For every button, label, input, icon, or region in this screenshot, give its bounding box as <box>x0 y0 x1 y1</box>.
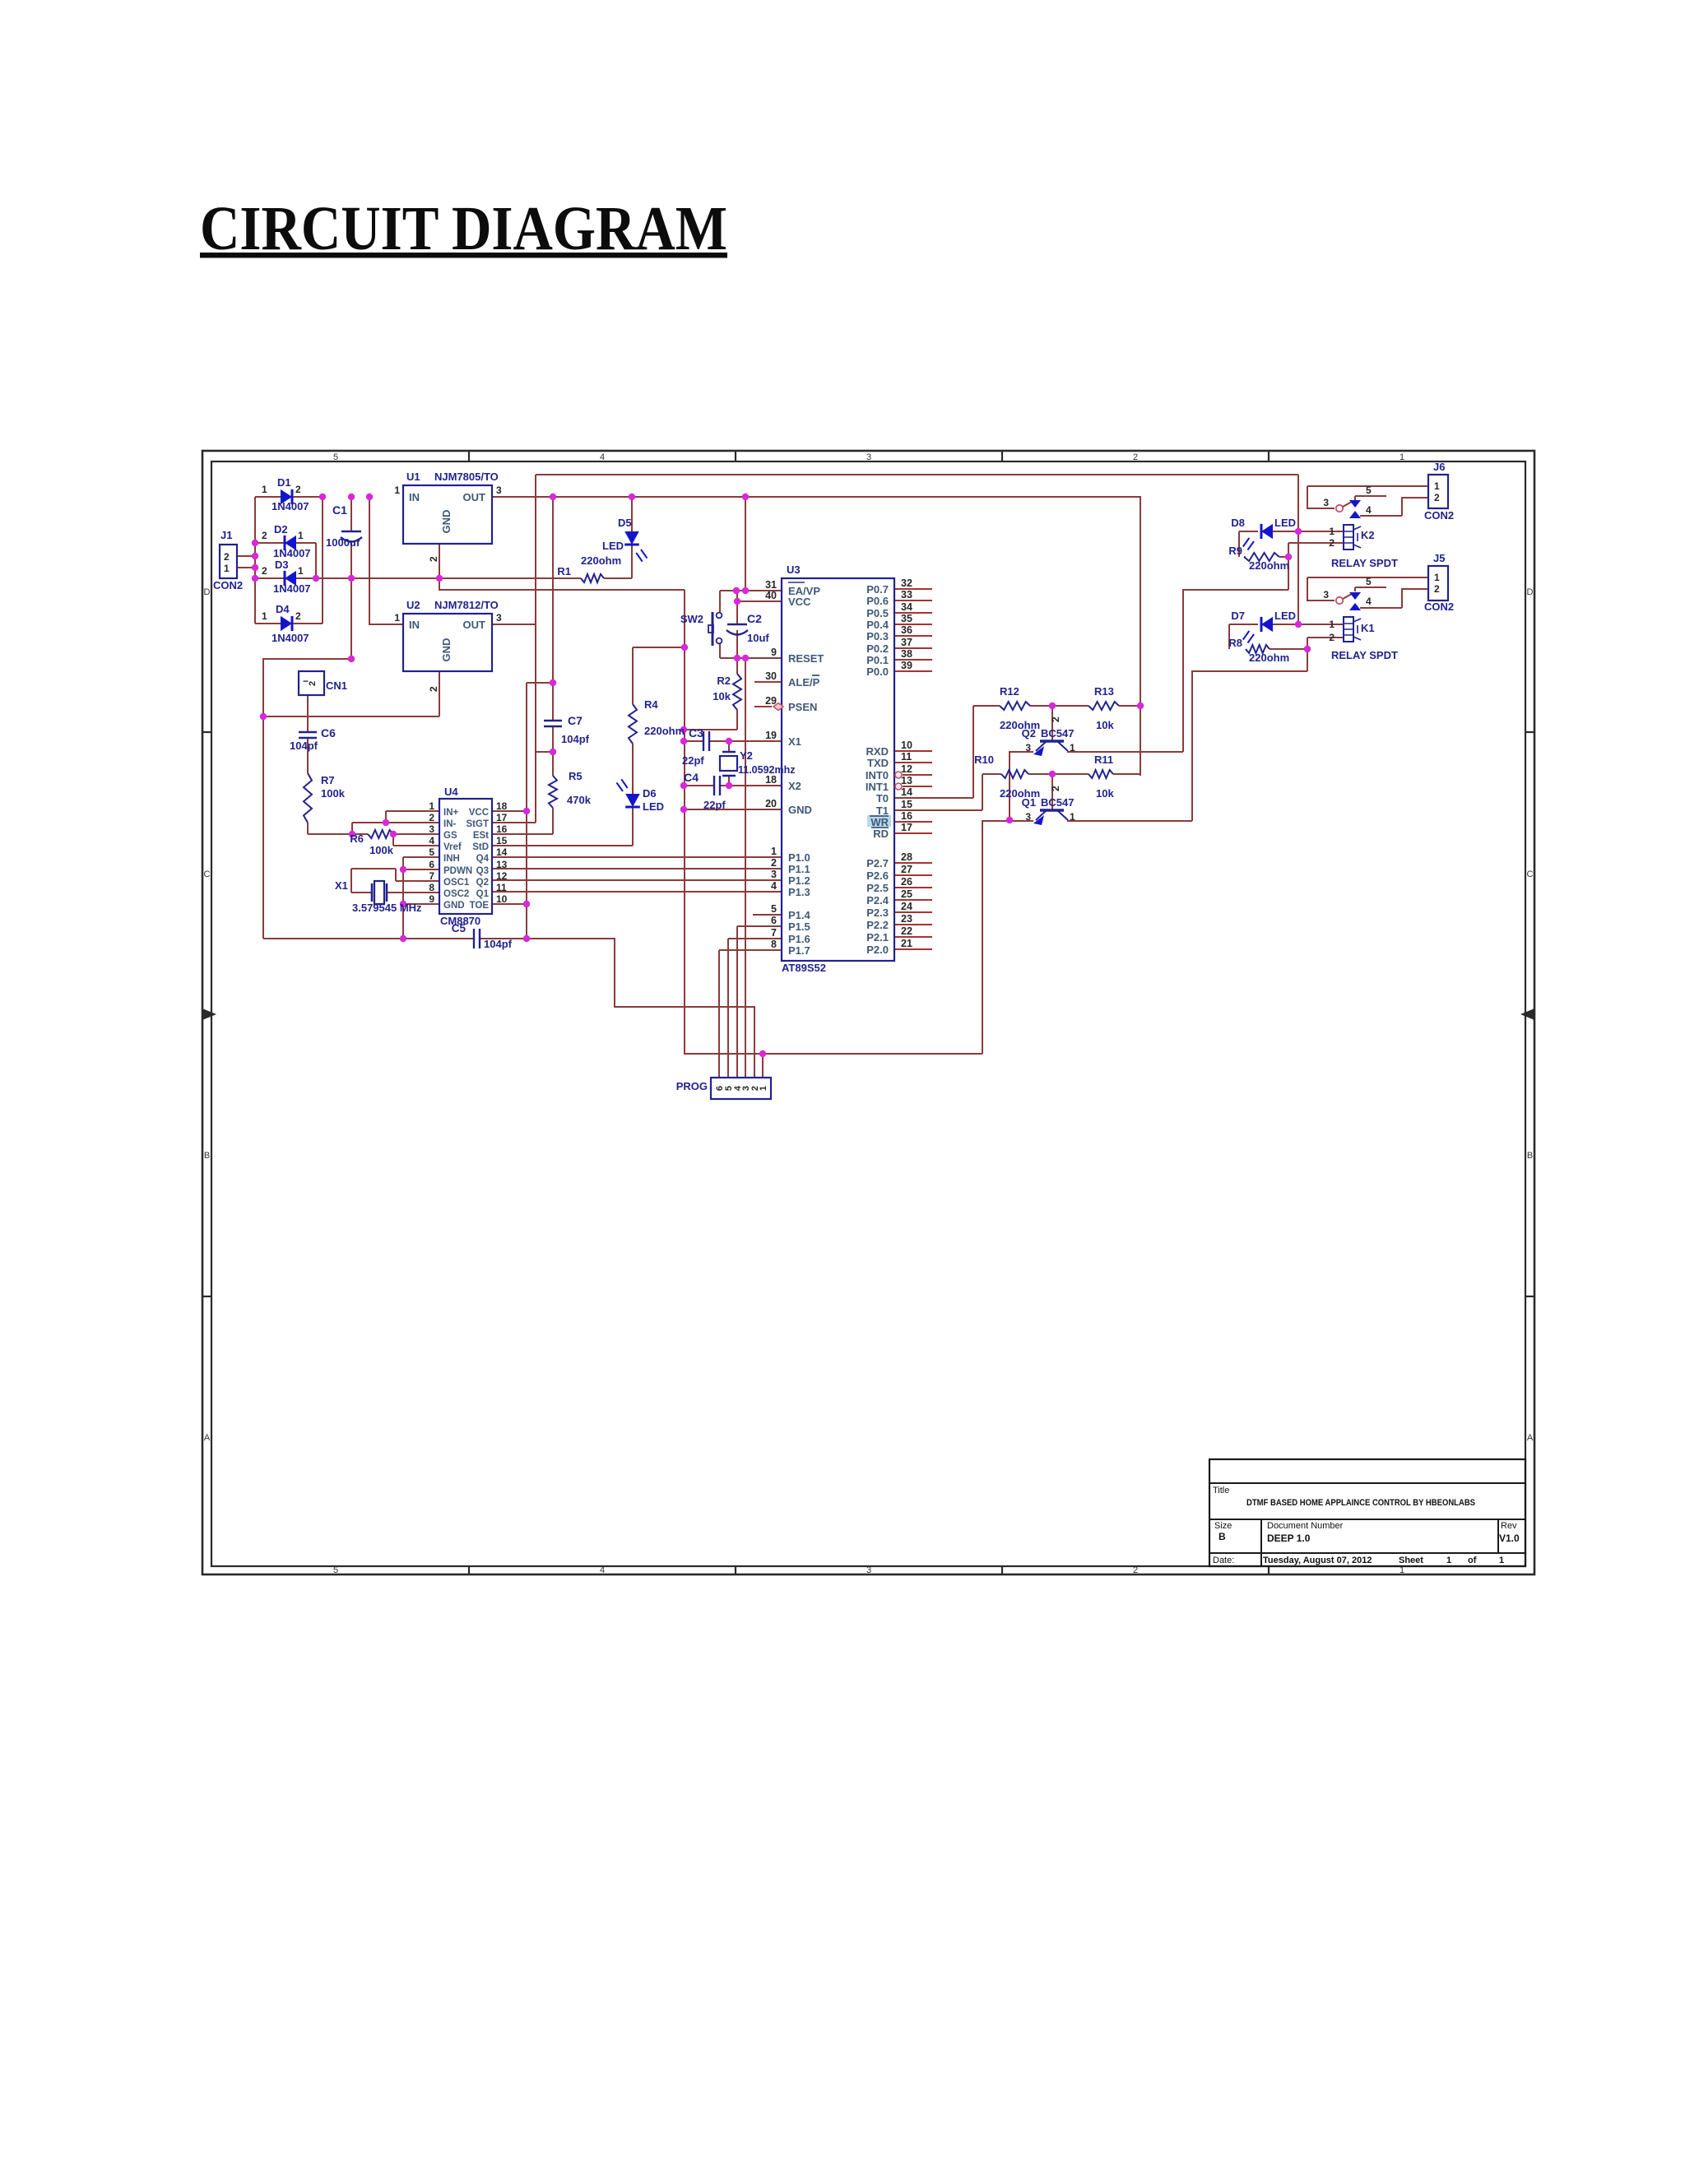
svg-text:RELAY SPDT: RELAY SPDT <box>1331 649 1398 661</box>
svg-text:R9: R9 <box>1228 545 1242 557</box>
svg-text:2: 2 <box>224 551 230 563</box>
svg-text:Rev: Rev <box>1501 1521 1517 1531</box>
svg-text:11: 11 <box>901 751 912 763</box>
svg-text:NJM7812/TO: NJM7812/TO <box>434 599 499 611</box>
svg-text:5: 5 <box>771 903 777 915</box>
svg-text:P0.7: P0.7 <box>866 583 889 596</box>
svg-text:IN+: IN+ <box>443 808 459 818</box>
svg-text:22pf: 22pf <box>703 799 726 811</box>
svg-text:1: 1 <box>224 563 230 574</box>
svg-text:P2.1: P2.1 <box>866 931 889 944</box>
svg-text:IN: IN <box>409 491 420 503</box>
svg-text:20: 20 <box>765 798 777 809</box>
svg-text:P0.1: P0.1 <box>866 654 889 666</box>
svg-text:27: 27 <box>901 864 912 875</box>
svg-text:D8: D8 <box>1231 517 1245 529</box>
svg-text:C3: C3 <box>689 726 703 740</box>
svg-text:Q4: Q4 <box>476 854 490 864</box>
svg-text:10uf: 10uf <box>747 632 769 644</box>
svg-text:D4: D4 <box>276 603 290 615</box>
svg-text:PROG: PROG <box>676 1080 708 1092</box>
svg-text:D3: D3 <box>275 559 289 571</box>
svg-text:38: 38 <box>901 648 912 660</box>
svg-text:2: 2 <box>428 686 439 692</box>
svg-text:26: 26 <box>901 876 912 888</box>
svg-text:TXD: TXD <box>867 757 889 769</box>
svg-text:WR: WR <box>870 816 889 828</box>
svg-text:4: 4 <box>1366 596 1372 607</box>
svg-text:P1.1: P1.1 <box>788 863 810 875</box>
svg-text:U2: U2 <box>406 599 420 611</box>
svg-text:104pf: 104pf <box>290 740 318 752</box>
svg-text:2: 2 <box>1434 492 1440 503</box>
svg-text:StGT: StGT <box>467 819 489 829</box>
svg-text:INT0: INT0 <box>866 769 889 781</box>
svg-text:2: 2 <box>1050 716 1061 722</box>
svg-text:10: 10 <box>901 740 912 751</box>
svg-text:C7: C7 <box>568 714 583 727</box>
svg-text:VCC: VCC <box>469 808 489 818</box>
svg-text:P2.5: P2.5 <box>866 882 889 894</box>
svg-text:P0.5: P0.5 <box>866 607 889 619</box>
svg-text:22pf: 22pf <box>682 754 704 767</box>
svg-text:GND: GND <box>440 510 453 534</box>
svg-text:1: 1 <box>1446 1556 1451 1565</box>
svg-text:1: 1 <box>394 612 400 624</box>
svg-text:of: of <box>1468 1556 1477 1565</box>
svg-text:T1: T1 <box>876 805 889 817</box>
svg-text:DEEP 1.0: DEEP 1.0 <box>1267 1533 1311 1544</box>
svg-text:28: 28 <box>901 851 912 863</box>
svg-text:Size: Size <box>1214 1521 1232 1531</box>
svg-text:C: C <box>204 869 211 879</box>
svg-text:7: 7 <box>771 927 777 939</box>
svg-text:LED: LED <box>602 540 624 552</box>
svg-text:R4: R4 <box>644 698 658 711</box>
svg-text:30: 30 <box>765 670 777 682</box>
svg-text:SW2: SW2 <box>680 613 703 625</box>
svg-text:40: 40 <box>765 590 777 601</box>
svg-text:RXD: RXD <box>866 745 889 758</box>
svg-text:D5: D5 <box>618 517 632 529</box>
svg-text:100k: 100k <box>321 787 346 800</box>
svg-text:C1: C1 <box>332 503 347 517</box>
svg-text:3: 3 <box>1025 742 1031 754</box>
svg-text:GS: GS <box>443 831 457 841</box>
svg-text:24: 24 <box>901 901 912 912</box>
svg-text:R7: R7 <box>321 774 335 786</box>
svg-text:D6: D6 <box>643 787 657 800</box>
svg-text:INH: INH <box>443 854 460 864</box>
svg-text:6: 6 <box>429 859 434 870</box>
svg-text:P2.7: P2.7 <box>866 857 889 869</box>
svg-text:17: 17 <box>496 812 508 823</box>
svg-text:Q2: Q2 <box>1022 727 1036 740</box>
svg-text:1: 1 <box>1070 811 1075 823</box>
svg-text:1N4007: 1N4007 <box>272 500 309 512</box>
svg-text:15: 15 <box>496 835 508 846</box>
svg-text:10k: 10k <box>1096 787 1114 800</box>
svg-text:C4: C4 <box>684 771 699 784</box>
svg-text:J5: J5 <box>1433 552 1445 564</box>
svg-text:DTMF BASED HOME APPLAINCE CONT: DTMF BASED HOME APPLAINCE CONTROL BY HBE… <box>1246 1498 1475 1508</box>
svg-text:P1.5: P1.5 <box>788 920 810 933</box>
svg-text:Vref: Vref <box>443 842 462 852</box>
svg-text:1: 1 <box>262 484 267 495</box>
svg-text:R10: R10 <box>974 754 994 766</box>
svg-text:Date:: Date: <box>1213 1556 1234 1565</box>
svg-text:P2.6: P2.6 <box>866 869 889 882</box>
svg-text:X1: X1 <box>788 735 801 748</box>
svg-text:Title: Title <box>1213 1486 1229 1495</box>
svg-text:1: 1 <box>771 846 777 857</box>
svg-text:16: 16 <box>901 810 912 822</box>
svg-text:1: 1 <box>1329 619 1335 630</box>
svg-text:RELAY SPDT: RELAY SPDT <box>1331 557 1398 569</box>
svg-text:14: 14 <box>901 786 912 798</box>
svg-text:B: B <box>1527 1151 1533 1161</box>
svg-text:B: B <box>204 1151 210 1161</box>
svg-text:NJM7805/TO: NJM7805/TO <box>434 471 499 483</box>
svg-text:5: 5 <box>1366 485 1372 496</box>
svg-text:Q3: Q3 <box>476 866 489 876</box>
svg-text:3: 3 <box>1025 811 1031 823</box>
svg-text:IN-: IN- <box>443 819 457 829</box>
svg-text:P2.4: P2.4 <box>866 894 889 907</box>
svg-text:1: 1 <box>429 800 434 812</box>
svg-text:P1.2: P1.2 <box>788 874 810 887</box>
svg-text:2: 2 <box>771 857 777 869</box>
svg-text:37: 37 <box>901 637 912 648</box>
svg-text:15: 15 <box>901 799 912 810</box>
svg-text:4: 4 <box>1366 504 1372 516</box>
svg-text:18: 18 <box>496 800 508 812</box>
svg-text:D2: D2 <box>274 523 288 536</box>
svg-text:P2.0: P2.0 <box>866 944 889 956</box>
svg-text:U1: U1 <box>406 471 420 483</box>
svg-text:C6: C6 <box>321 726 336 740</box>
svg-text:1: 1 <box>1434 572 1440 583</box>
svg-text:RESET: RESET <box>788 652 824 665</box>
svg-text:Tuesday, August 07, 2012: Tuesday, August 07, 2012 <box>1263 1556 1372 1565</box>
svg-text:33: 33 <box>901 589 912 600</box>
svg-text:4: 4 <box>771 880 777 892</box>
svg-text:P0.2: P0.2 <box>866 642 889 655</box>
svg-text:ALE/P: ALE/P <box>788 676 820 689</box>
svg-text:1: 1 <box>262 610 267 622</box>
svg-text:1: 1 <box>298 530 304 541</box>
svg-text:220ohm: 220ohm <box>581 554 621 567</box>
svg-text:P1.0: P1.0 <box>788 851 810 864</box>
svg-text:19: 19 <box>765 730 777 741</box>
svg-text:1N4007: 1N4007 <box>273 582 311 595</box>
svg-text:14: 14 <box>496 846 508 858</box>
svg-text:PSEN: PSEN <box>788 701 817 713</box>
svg-text:220ohm: 220ohm <box>1249 559 1289 572</box>
svg-text:GND: GND <box>440 638 453 662</box>
svg-text:P1.3: P1.3 <box>788 886 810 898</box>
svg-text:220ohm: 220ohm <box>644 725 685 737</box>
svg-text:2: 2 <box>1133 1565 1138 1575</box>
svg-text:R2: R2 <box>717 675 731 687</box>
svg-text:C5: C5 <box>452 922 467 934</box>
svg-text:39: 39 <box>901 660 912 671</box>
svg-text:R6: R6 <box>350 832 364 845</box>
svg-text:1000uf: 1000uf <box>326 536 360 549</box>
svg-text:35: 35 <box>901 613 912 624</box>
svg-text:5: 5 <box>1366 576 1372 587</box>
svg-text:LED: LED <box>1274 517 1296 529</box>
svg-text:100k: 100k <box>369 844 394 856</box>
svg-text:9: 9 <box>429 893 434 905</box>
svg-text:16: 16 <box>496 823 508 835</box>
svg-text:3: 3 <box>1323 589 1329 600</box>
svg-text:C2: C2 <box>747 612 762 625</box>
svg-text:D7: D7 <box>1231 610 1245 622</box>
svg-text:Document Number: Document Number <box>1267 1521 1344 1531</box>
svg-text:BC547: BC547 <box>1041 727 1074 740</box>
svg-text:31: 31 <box>765 579 777 591</box>
svg-text:22: 22 <box>901 925 912 937</box>
svg-text:AT89S52: AT89S52 <box>782 962 826 974</box>
svg-text:R13: R13 <box>1094 685 1114 698</box>
svg-text:4: 4 <box>600 452 605 462</box>
svg-text:OSC1: OSC1 <box>443 878 470 888</box>
svg-text:3: 3 <box>866 1565 871 1575</box>
svg-text:3.579545 MHz: 3.579545 MHz <box>352 902 422 914</box>
svg-text:OUT: OUT <box>463 619 486 631</box>
svg-text:2: 2 <box>262 530 267 541</box>
svg-text:CON2: CON2 <box>213 579 243 591</box>
svg-text:10k: 10k <box>713 690 731 702</box>
svg-text:U4: U4 <box>444 786 458 798</box>
svg-text:P2.3: P2.3 <box>866 907 889 919</box>
svg-text:R11: R11 <box>1094 754 1113 766</box>
svg-text:25: 25 <box>901 888 912 900</box>
svg-text:Sheet: Sheet <box>1399 1556 1423 1565</box>
svg-text:R5: R5 <box>569 770 583 782</box>
svg-text:X1: X1 <box>335 879 348 892</box>
svg-text:2: 2 <box>295 610 301 622</box>
svg-text:1: 1 <box>1434 480 1440 492</box>
svg-text:3: 3 <box>1323 497 1329 508</box>
svg-text:220ohm: 220ohm <box>1249 651 1289 664</box>
svg-text:4: 4 <box>600 1565 605 1575</box>
svg-text:9: 9 <box>771 647 777 658</box>
svg-text:3: 3 <box>496 485 502 496</box>
svg-text:2: 2 <box>308 681 318 686</box>
svg-text:13: 13 <box>901 775 912 786</box>
svg-text:36: 36 <box>901 624 912 636</box>
svg-text:13: 13 <box>496 859 508 870</box>
svg-text:3: 3 <box>496 612 502 624</box>
svg-text:J1: J1 <box>220 529 232 541</box>
svg-text:K2: K2 <box>1361 529 1375 541</box>
svg-text:V1.0: V1.0 <box>1499 1533 1520 1544</box>
svg-text:R12: R12 <box>1000 685 1019 698</box>
svg-text:104pf: 104pf <box>561 733 590 745</box>
svg-text:2: 2 <box>1050 786 1061 791</box>
svg-text:A: A <box>204 1433 211 1443</box>
svg-text:R1: R1 <box>557 565 571 577</box>
svg-text:OSC2: OSC2 <box>443 889 469 899</box>
svg-text:P0.0: P0.0 <box>866 665 889 678</box>
svg-text:P0.3: P0.3 <box>866 630 889 642</box>
svg-text:2: 2 <box>1133 452 1138 462</box>
svg-text:IN: IN <box>409 619 420 631</box>
svg-text:C: C <box>1527 869 1534 879</box>
svg-text:5: 5 <box>429 846 434 858</box>
svg-text:CN1: CN1 <box>326 679 347 692</box>
svg-text:1: 1 <box>1400 452 1404 462</box>
svg-text:1: 1 <box>1070 742 1075 754</box>
svg-text:CON2: CON2 <box>1424 509 1454 522</box>
svg-text:1: 1 <box>394 485 400 496</box>
svg-text:GND: GND <box>443 901 465 911</box>
svg-text:CON2: CON2 <box>1424 600 1454 613</box>
svg-text:D: D <box>1527 587 1534 597</box>
svg-text:1: 1 <box>1329 526 1335 537</box>
svg-text:P0.4: P0.4 <box>866 619 889 631</box>
svg-text:X2: X2 <box>788 780 801 792</box>
svg-text:Y2: Y2 <box>740 749 753 762</box>
svg-text:23: 23 <box>901 913 912 925</box>
svg-text:INT1: INT1 <box>866 781 889 793</box>
svg-text:18: 18 <box>765 774 777 786</box>
svg-text:Q2: Q2 <box>476 878 489 888</box>
svg-text:R8: R8 <box>1228 637 1242 649</box>
svg-text:5: 5 <box>333 1565 338 1575</box>
svg-text:1N4007: 1N4007 <box>273 547 311 559</box>
svg-text:5: 5 <box>333 452 338 462</box>
svg-text:6: 6 <box>771 915 777 926</box>
svg-text:K1: K1 <box>1361 622 1375 634</box>
svg-text:U3: U3 <box>787 563 801 576</box>
svg-text:LED: LED <box>1274 610 1296 622</box>
svg-text:Q1: Q1 <box>476 889 490 899</box>
svg-text:P0.6: P0.6 <box>866 595 889 607</box>
svg-text:470k: 470k <box>567 794 592 806</box>
svg-text:P1.7: P1.7 <box>788 944 810 957</box>
svg-text:P2.2: P2.2 <box>866 919 889 931</box>
svg-text:GND: GND <box>788 804 812 816</box>
svg-text:4: 4 <box>429 835 434 846</box>
svg-text:2: 2 <box>428 556 439 562</box>
svg-text:12: 12 <box>496 870 508 882</box>
svg-text:104pf: 104pf <box>484 938 513 950</box>
svg-text:12: 12 <box>901 763 912 775</box>
svg-text:7: 7 <box>429 870 434 882</box>
svg-text:A: A <box>1527 1433 1534 1443</box>
svg-text:3: 3 <box>771 869 777 880</box>
svg-text:10k: 10k <box>1096 719 1114 731</box>
svg-text:2: 2 <box>1329 632 1335 643</box>
svg-text:21: 21 <box>901 938 912 949</box>
svg-text:1: 1 <box>759 1086 768 1091</box>
svg-text:3: 3 <box>429 823 434 835</box>
svg-text:LED: LED <box>643 800 664 813</box>
svg-text:8: 8 <box>771 939 777 950</box>
svg-text:10: 10 <box>496 893 508 905</box>
svg-text:32: 32 <box>901 577 912 589</box>
svg-text:J6: J6 <box>1433 461 1445 473</box>
svg-text:RD: RD <box>873 828 889 840</box>
svg-text:17: 17 <box>901 822 912 833</box>
svg-text:Q1: Q1 <box>1022 796 1036 809</box>
svg-text:P1.6: P1.6 <box>788 933 810 945</box>
svg-text:2: 2 <box>429 812 434 823</box>
svg-text:3: 3 <box>866 452 871 462</box>
svg-text:2: 2 <box>1329 537 1335 549</box>
svg-text:8: 8 <box>429 882 434 893</box>
svg-text:D: D <box>204 587 211 597</box>
svg-text:2: 2 <box>262 565 267 577</box>
svg-text:2: 2 <box>1434 583 1440 595</box>
svg-text:29: 29 <box>765 695 777 707</box>
svg-text:D1: D1 <box>277 476 291 489</box>
svg-text:1N4007: 1N4007 <box>272 632 309 644</box>
svg-text:2: 2 <box>295 484 301 495</box>
svg-text:1: 1 <box>298 565 304 577</box>
svg-text:34: 34 <box>901 601 912 613</box>
svg-text:BC547: BC547 <box>1041 796 1074 809</box>
svg-text:OUT: OUT <box>463 491 486 503</box>
svg-text:ESt: ESt <box>473 831 489 841</box>
svg-text:1: 1 <box>1499 1556 1504 1565</box>
svg-text:P1.4: P1.4 <box>788 909 811 921</box>
svg-text:TOE: TOE <box>470 901 490 911</box>
svg-text:B: B <box>1218 1531 1226 1542</box>
svg-text:StD: StD <box>472 842 489 852</box>
svg-text:VCC: VCC <box>788 596 811 608</box>
svg-text:PDWN: PDWN <box>443 866 472 876</box>
svg-text:T0: T0 <box>876 792 889 805</box>
svg-text:11: 11 <box>496 882 507 893</box>
